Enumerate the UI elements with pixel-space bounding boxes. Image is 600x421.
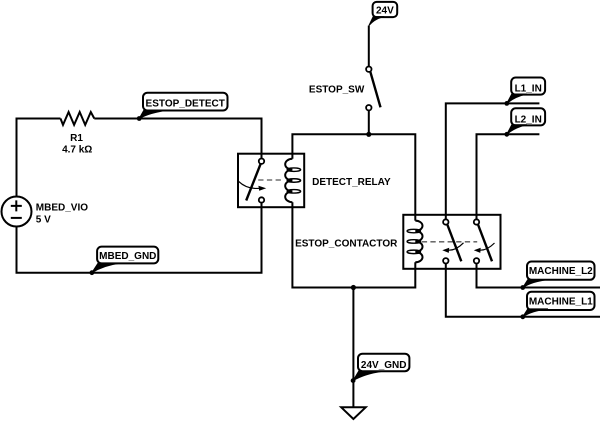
wire L2_IN run xyxy=(477,134,540,219)
svg-text:MACHINE_L2: MACHINE_L2 xyxy=(529,266,593,277)
net flag 24V xyxy=(369,2,397,26)
svg-text:MBED_VIO: MBED_VIO xyxy=(36,203,88,214)
net flag MACHINE_L2 xyxy=(520,262,594,290)
svg-text:L1_IN: L1_IN xyxy=(515,84,542,95)
svg-text:ESTOP_DETECT: ESTOP_DETECT xyxy=(146,98,225,109)
svg-text:MBED_GND: MBED_GND xyxy=(99,251,156,262)
contactor dashed link xyxy=(422,241,477,243)
voltage source MBED_VIO xyxy=(2,197,89,227)
ground symbol xyxy=(341,407,366,419)
svg-text:DETECT_RELAY: DETECT_RELAY xyxy=(312,177,391,188)
wire ESTOP_SW to junction rail xyxy=(292,110,415,220)
resistor R1 xyxy=(61,112,95,156)
net flag L1_IN xyxy=(504,78,545,106)
svg-text:5 V: 5 V xyxy=(36,214,51,225)
junction ESTOP_SW rail xyxy=(366,132,371,137)
contactor ESTOP_CONTACTOR box xyxy=(295,215,500,269)
net flag 24V_GND xyxy=(351,354,410,383)
wire MACHINE_L1 run xyxy=(446,264,600,317)
svg-text:24V_GND: 24V_GND xyxy=(361,360,407,371)
svg-text:R1: R1 xyxy=(70,133,83,144)
switch ESTOP_SW xyxy=(309,67,381,111)
wire to ground xyxy=(352,288,354,408)
svg-text:ESTOP_SW: ESTOP_SW xyxy=(309,84,365,95)
svg-text:4.7 kΩ: 4.7 kΩ xyxy=(62,145,92,156)
svg-text:L2_IN: L2_IN xyxy=(515,115,542,126)
relay DETECT_RELAY box xyxy=(238,154,391,208)
wire bottom left: MBED_GND run xyxy=(17,203,262,273)
svg-text:24V: 24V xyxy=(376,6,394,17)
relay DETECT_RELAY actuator arrow xyxy=(239,181,267,190)
wire 24V to ESTOP_SW xyxy=(368,26,370,67)
wire MACHINE_L2 run xyxy=(477,264,600,288)
contactor switch contact A xyxy=(443,219,461,263)
net flag MACHINE_L1 xyxy=(520,292,594,319)
wire coil bottoms rail xyxy=(292,202,415,287)
contactor switch contact B xyxy=(474,219,492,263)
contactor switch B arrow xyxy=(474,243,495,253)
contactor switch A arrow xyxy=(442,243,463,253)
relay DETECT_RELAY actuator dashed link xyxy=(258,179,284,181)
net flag ESTOP_DETECT xyxy=(137,93,228,121)
relay DETECT_RELAY coil L1 xyxy=(285,159,300,202)
net flag MBED_GND xyxy=(90,247,159,276)
wire top loop: MBED_VIO plus to R1 and across to relay switch xyxy=(17,119,262,197)
contactor ESTOP_CONTACTOR coil L2 xyxy=(407,221,422,263)
net flag L2_IN xyxy=(504,108,545,136)
junction ground rail xyxy=(351,285,356,290)
relay DETECT_RELAY switch contact xyxy=(246,159,264,203)
svg-text:MACHINE_L1: MACHINE_L1 xyxy=(529,296,593,307)
svg-text:ESTOP_CONTACTOR: ESTOP_CONTACTOR xyxy=(295,239,398,250)
wire L1_IN run xyxy=(446,103,540,219)
